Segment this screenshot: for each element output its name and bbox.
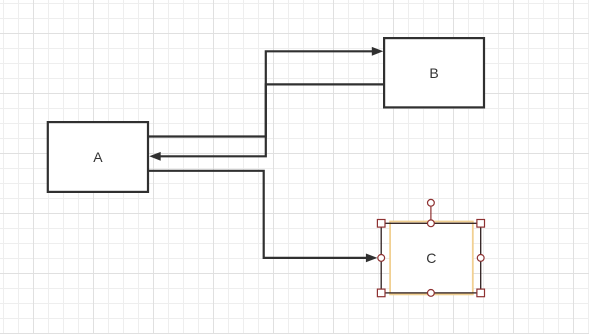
corner handle bottom-left — [377, 289, 385, 297]
box A — [48, 122, 148, 192]
arrowhead into B — [372, 47, 384, 56]
svg-text:B: B — [429, 65, 438, 81]
box B — [384, 38, 484, 107]
wire A to B — [149, 51, 373, 136]
corner handle top-left — [377, 220, 385, 228]
wire B to A — [160, 84, 383, 156]
svg-text:A: A — [93, 149, 103, 165]
corner handle top-right — [477, 220, 485, 228]
mid handle right — [477, 255, 484, 262]
mid handle bottom — [428, 290, 435, 297]
arrowhead into A — [149, 152, 161, 161]
mid handle top — [428, 220, 435, 227]
rotation handle stem — [430, 207, 432, 221]
wire A to C — [149, 171, 367, 258]
arrowhead into C — [366, 254, 378, 263]
mid handle left — [378, 255, 385, 262]
svg-text:C: C — [426, 250, 436, 266]
selection bounds rect of C — [381, 223, 481, 293]
rotation handle — [428, 199, 435, 206]
box C orange highlight rect — [390, 222, 473, 295]
corner handle bottom-right — [477, 289, 485, 297]
